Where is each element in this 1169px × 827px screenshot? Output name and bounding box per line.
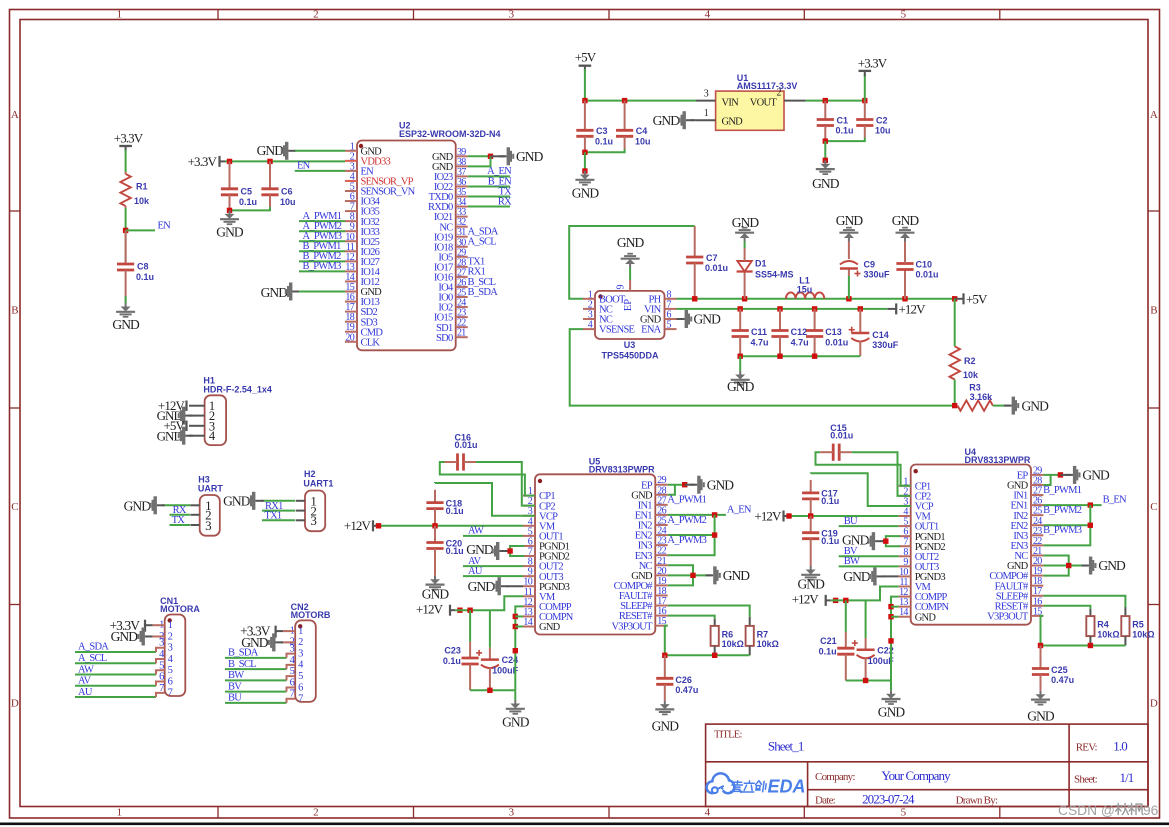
ground flag GND (U4 PGND1/2) [842,532,886,550]
power flag +12V (U3 VIN) [887,302,926,317]
junction [662,653,667,658]
svg-text:C5: C5 [241,187,253,197]
capacitor C3 [576,101,613,153]
svg-text:0.01u: 0.01u [705,263,728,273]
svg-text:C: C [1150,501,1157,513]
junction [488,154,493,159]
svg-text:UART1: UART1 [303,479,333,489]
CN2 pin 7 [290,689,303,705]
wire stub [156,670,165,674]
CN2 pin 5 [290,666,303,682]
svg-text:2: 2 [777,88,782,99]
wire bulk gnd rail [846,680,891,682]
H3 pin 1 [190,498,211,513]
wire pullup rail [1041,645,1126,647]
svg-text:C2: C2 [876,116,888,126]
resistor R6 [711,619,744,655]
U3 pin 8 PH [649,289,677,305]
wire [839,555,899,557]
svg-text:HDR-F-2.54_1x4: HDR-F-2.54_1x4 [203,384,272,394]
watermark CSDN [1058,803,1159,818]
U2 pin 8 IO32 [345,212,380,228]
U2 pin 27 IO16 [434,267,468,283]
junction [888,614,893,619]
net label EN [158,221,172,232]
U5 pin 27 IN1 [638,495,668,511]
U5 pin 25 IN2 [638,515,668,531]
op-amp U2 body ESP32-WROOM-32D-N4 [357,121,501,351]
power flag +5V (H1 pin3) [164,418,187,433]
ground flag GND (U4 EP) [1060,466,1110,484]
U2 pin 38 GND [432,157,468,173]
junction [1088,523,1093,528]
U5 pin 28 GND [631,485,667,501]
net label TX (H3 pin3) [172,515,186,526]
svg-text:A_EN: A_EN [727,504,752,515]
U2 pin 1 GND [345,141,382,157]
junction (C19 top) [808,513,813,518]
wire [668,484,685,486]
svg-text:4: 4 [588,320,593,331]
U5 pin 12 COMPP [523,597,572,613]
junction [682,482,687,487]
CN2 pin 6 [290,677,303,693]
capacitor C20 [426,526,463,576]
wire CP2 path [852,452,911,496]
ground GND (caps) [727,371,755,394]
svg-text:C: C [11,501,18,513]
node EN (junction) [123,228,128,233]
svg-text:CSDN @: CSDN @ [1058,803,1115,818]
net label A_EN (U5 pin26) [727,504,752,515]
ground flag GND (U5 pin20) [706,566,751,584]
svg-text:2: 2 [168,631,173,642]
ground GND (below C8) [112,303,140,332]
svg-text:C13: C13 [825,327,842,337]
U2 pin 14 IO12 [345,272,380,288]
net label B_PWM2 (U2 pin12) [303,251,342,262]
svg-text:Sheet_1: Sheet_1 [768,739,804,754]
net label AV (CN1 pin6) [78,676,91,687]
U5 pin 9 OUT3 [523,567,563,583]
svg-text:0.1u: 0.1u [239,197,257,207]
ground flag GND (U5 PGND3) [468,577,523,595]
svg-text:1: 1 [117,9,122,21]
svg-text:GND: GND [892,213,920,228]
wire [468,196,510,198]
svg-text:3: 3 [205,518,211,533]
svg-text:10u: 10u [875,126,891,136]
svg-text:GND: GND [878,705,906,720]
U4 pin 1 CP1 [899,476,931,492]
wire [225,679,287,681]
CN2 pin 1 [290,625,303,637]
U3 pin 1 BOOT [583,289,626,305]
junction [888,604,893,609]
U3 pin 7 VIN [644,299,676,315]
U4 pin 17 SLEEP# [996,586,1044,602]
U2 pin 19 CMD [345,322,383,338]
wire CP2 path [476,462,535,506]
wire [1043,475,1050,485]
power flag +12V (U4 VM) [754,508,791,523]
U1 pin 2 VOUT [777,88,806,101]
svg-text:21: 21 [457,328,466,339]
svg-text:GND: GND [112,317,140,332]
wire stub [156,659,165,663]
U4 pin 23 IN3 [1013,526,1043,542]
H2 pin 1 [296,494,317,509]
wire GND pin14 tap [515,626,523,628]
wire +5V rail to U1 VIN [585,100,696,102]
wire [463,575,523,577]
svg-text:GND: GND [516,149,544,164]
svg-text:C4: C4 [636,126,648,136]
junction (C13 bottom) [812,354,817,359]
capacitor C18 [426,490,463,526]
H1 pin 2 [189,409,215,423]
net label A_SCL (U2 pin30) [468,237,497,248]
svg-text:+3.3V: +3.3V [114,131,144,146]
net label B_SCL (U2 pin26) [468,277,496,288]
CN1 pin 6 [159,672,172,688]
junction [487,688,492,693]
junction (C13 top) [812,306,817,311]
U3 pin 5 ENA [641,320,676,336]
power flag +3.3V (R1) [114,131,144,152]
wire [262,510,295,512]
svg-text:+3.3V: +3.3V [858,56,888,71]
resistor R7 [746,617,779,655]
U5 pin 29 EP [641,475,668,491]
wire [225,702,287,704]
svg-text:20: 20 [345,332,354,343]
svg-text:GND: GND [707,477,735,492]
net label BV (U4 OUT2) [844,546,858,557]
svg-text:R6: R6 [722,630,734,640]
wire [739,356,741,371]
junction [690,573,695,578]
wire COMPN tap [891,606,899,608]
wire [1043,474,1060,476]
wire stub [287,676,296,680]
capacitor C24 100uF [476,610,519,690]
net label A_PWM2 (U5 pin25) [667,515,706,526]
wire +3.3V rail to U2 pin2 [225,160,345,162]
U5 pin 6 PGND1 [523,536,570,552]
wire [264,500,295,502]
svg-text:+3.3V: +3.3V [188,154,218,169]
net label TX1 (H2 pin3) [264,511,282,522]
wire SLEEP# to R5 [1043,596,1125,607]
svg-text:MOTORA: MOTORA [160,604,200,614]
net label RX1 (H2 pin2) [265,501,283,512]
U2 pin 6 IO34 [345,192,381,208]
H3 pin 3 [190,518,211,533]
svg-text:A: A [1150,109,1158,121]
junction (R2/R3 node) [952,403,957,408]
junction [863,678,868,683]
svg-text:10kΩ: 10kΩ [757,639,779,649]
svg-text:VIN: VIN [722,98,740,109]
ground flag GND (U2 pin15) [261,283,300,301]
net label B_EN (U2 pin36) [488,176,512,187]
net label B_PWM1 (U2 pin11) [303,241,342,252]
svg-text:C25: C25 [1051,665,1068,675]
svg-text:R5: R5 [1132,620,1144,630]
svg-text:DRV8313PWPR: DRV8313PWPR [589,465,655,475]
U5 pin 7 PGND2 [523,547,570,563]
wire [839,565,899,567]
wire PGND1/PGND2 tie [886,536,900,546]
wire [170,514,191,516]
junction [712,532,717,537]
capacitor C26 [656,655,698,700]
junction [1088,643,1093,648]
svg-text:3: 3 [310,513,316,528]
junction (gnd) [582,168,587,173]
net label RX (H3 pin2) [173,505,187,516]
wire stub [287,687,296,691]
net label A_SDA (CN1 pin3) [78,642,109,653]
U5 pin 11 VM [523,587,556,603]
capacitor C22 100uF [852,600,895,680]
wire C5-C6 bottom [230,207,271,210]
wire [668,485,675,495]
wire [839,525,899,527]
U2 pin 3 EN [345,161,374,177]
wire [299,240,345,242]
wire stub [156,693,165,697]
power flag +12V (U5 VM) [344,518,381,533]
U4 pin 7 PGND2 [899,537,946,553]
svg-text:2023-07-24: 2023-07-24 [862,792,915,807]
net label BW (CN2 pin5) [228,670,244,681]
U5 pin 15 V3P3OUT [611,616,667,632]
net label RX1 (U2 pin27) [468,267,486,278]
svg-text:V3P3OUT: V3P3OUT [611,621,653,632]
wire [299,250,345,252]
svg-text:C9: C9 [864,260,876,270]
H2 pin 2 [296,503,317,518]
svg-text:A: A [11,109,19,121]
wire [75,685,156,687]
wire [468,175,510,177]
svg-text:GND: GND [261,285,289,300]
logo JLC EDA [707,773,806,796]
wire VCP path [435,483,535,516]
svg-text:GND: GND [502,715,530,730]
U2 pin 5 SENSOR_VN [345,182,416,198]
svg-text:0.1u: 0.1u [819,646,837,656]
svg-text:RX: RX [498,196,512,207]
svg-text:15u: 15u [797,285,813,295]
svg-text:EDA: EDA [768,777,806,797]
svg-text:GND: GND [722,117,744,128]
U2 pin 21 SD0 [436,328,468,344]
U3 pin 6 GND [640,310,677,326]
U5 pin 24 EN2 [635,526,668,542]
svg-text:0.1u: 0.1u [136,272,154,282]
junction (C9-PH) [846,296,851,301]
capacitor C16 [445,433,478,471]
svg-text:A_SCL: A_SCL [468,237,497,248]
wire stub [287,654,296,658]
U4 pin 12 COMPP [899,587,948,603]
wire stub [156,648,165,652]
svg-text:0.01u: 0.01u [455,440,478,450]
svg-text:B_SDA: B_SDA [468,287,499,298]
wire V3P3OUT [665,626,668,656]
svg-text:D: D [1150,698,1158,710]
resistor R2 [950,346,980,380]
wire COMPP chain [891,597,899,681]
net label EN (U2 pin3) [297,161,311,172]
wire VM rail [375,525,523,527]
junction [1088,502,1093,507]
ground GND (above C10) [892,213,920,242]
svg-text:10kΩ: 10kΩ [1097,629,1119,639]
U2 pin 4 SENSOR_VP [345,171,414,187]
capacitor C7 [686,226,728,299]
regulator U1 AMS1117-3.3V body [716,73,798,130]
wire PH rail [677,298,955,300]
wire [954,299,956,347]
wire [299,270,345,272]
net label BV (CN2 pin6) [228,681,242,692]
junction (C20 top) [432,523,437,528]
wire pullup rail [665,654,750,656]
svg-text:GND: GND [653,113,681,128]
U5 pin 26 EN1 [635,505,668,521]
svg-text:5: 5 [667,320,672,331]
svg-text:0.47u: 0.47u [1051,675,1074,685]
svg-text:VOUT: VOUT [750,98,778,109]
ground flag GND (H2 pin1) [223,492,264,510]
power flag +5V (input) [575,50,597,72]
junction [1038,643,1043,648]
bottom black separator bar [0,823,1169,826]
svg-text:GND: GND [727,379,755,394]
svg-text:0.01u: 0.01u [916,270,939,280]
junction (C5 bottom) [227,208,232,213]
capacitor C21 [819,600,855,680]
svg-text:1.0: 1.0 [1113,739,1127,754]
junction (C5 top) [227,159,232,164]
svg-text:GND: GND [111,629,139,644]
net label A_PWM1 (U5 pin27) [667,495,706,506]
junction (C11 bottom) [738,354,743,359]
ground flag GND (CN1 pin2) [111,627,165,645]
svg-text:14: 14 [899,607,908,618]
U4 pin 22 EN3 [1010,536,1043,552]
svg-text:0.1u: 0.1u [443,656,461,666]
U5 pin 23 IN3 [638,536,668,552]
ground flag GND (CN2 pin2) [241,633,295,651]
U2 pin 16 IO13 [345,292,380,308]
wire [295,170,345,172]
U5 pin 13 COMPN [523,607,574,623]
capacitor C6 [261,161,295,207]
capacitor C9 330uF [840,242,890,299]
capacitor C11 [732,309,769,356]
wire [75,651,156,653]
U4 pin 11 VM [899,577,932,593]
svg-text:C26: C26 [675,675,692,685]
junction (C21) [843,598,848,603]
U4 pin 15 V3P3OUT [987,606,1043,622]
svg-text:SS54-MS: SS54-MS [755,269,794,279]
wire [890,681,892,691]
U5 pin 10 PGND3 [523,577,570,593]
power flag +12V (H1 pin1) [158,398,187,413]
capacitor C13 [806,309,848,356]
svg-text:Your Company: Your Company [881,768,951,783]
junction (C2) [862,98,867,103]
wire VSENSE loop (U3 pin4) [570,329,955,406]
U4 pin 13 COMPN [899,597,950,613]
net label TX1 (U2 pin28) [468,257,486,268]
svg-text:SD0: SD0 [436,333,453,344]
U2 pin 12 IO27 [345,252,380,268]
ground flag GND (H1 pin2) [157,407,193,425]
svg-text:GND: GND [797,577,825,592]
CN2 pin 4 [290,655,304,671]
svg-text:+5V: +5V [966,292,988,307]
U2 pin 28 IO17 [434,257,468,273]
svg-text:4.7u: 4.7u [751,338,769,348]
connector CN1 MOTORA body [160,596,200,696]
svg-text:C11: C11 [751,327,767,337]
svg-text:0.1u: 0.1u [836,126,854,136]
svg-text:10kΩ: 10kΩ [1132,629,1154,639]
CN2 pin 2 [290,637,303,649]
wire bulk rail [831,587,899,601]
net label BW (U4 OUT3) [844,556,860,567]
wire [225,668,287,670]
wire EN stub [126,229,155,231]
U2 pin 22 SD1 [436,318,468,334]
power flag +3.3V (C5/C6) [188,154,226,169]
ground GND (U5 bulk) [502,700,530,730]
junction (gnd C1) [823,158,828,163]
ground flag GND (U4 pin20) [1081,557,1126,575]
U4 pin 6 PGND1 [899,527,946,543]
svg-text:A_PWM2: A_PWM2 [667,515,706,526]
svg-text:TITLE:: TITLE: [714,730,742,741]
svg-text:GND: GND [539,622,561,633]
junction (D1-PH) [742,296,747,301]
svg-text:0.47u: 0.47u [675,685,698,695]
junction [1058,472,1063,477]
U2 pin 25 IO0 [438,288,467,304]
CN1 pin 2 [159,631,172,643]
svg-text:U3: U3 [624,340,636,350]
svg-text:10kΩ: 10kΩ [722,639,744,649]
ground flag GND (U2 pin1) [257,142,296,160]
junction (C11 top) [738,306,743,311]
U4 pin 29 EP [1017,465,1044,481]
U4 pin 3 VCP [899,496,934,512]
U2 pin 7 IO35 [345,202,380,218]
svg-text:C6: C6 [281,187,293,197]
junction [513,624,518,629]
net label A_EN (U2 pin37) [487,166,512,177]
wire pin20 GND [668,574,708,576]
wire [584,152,586,171]
wire pin20 GND [1043,565,1083,567]
net label AU (U5 OUT3) [468,566,483,577]
